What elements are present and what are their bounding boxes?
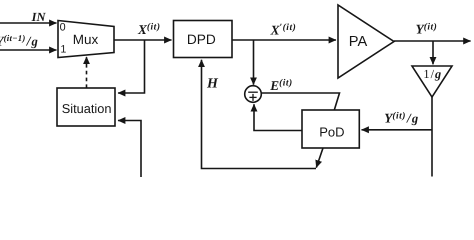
svg-text:PoD: PoD	[319, 125, 344, 140]
svg-text:X(it): X(it)	[137, 22, 160, 37]
block Situation	[57, 88, 115, 126]
wire branch Y(it) down to 1/g	[432, 41, 434, 64]
wire PA output Y(it)	[394, 40, 471, 42]
svg-text:Y(it) / g: Y(it) / g	[384, 111, 418, 126]
wire X'(it) branch down to summer	[253, 40, 255, 85]
svg-text:Y(it−1) / g: Y(it−1) / g	[0, 33, 38, 48]
wire bottom feedback H bus	[202, 60, 317, 169]
svg-text:X′(it): X′(it)	[270, 22, 297, 37]
minus-plus sign inside summer	[248, 92, 258, 101]
attenuator 1/g	[412, 66, 452, 97]
label Y(it)/g	[384, 111, 418, 126]
mux MUX	[58, 21, 114, 58]
label 1/g	[423, 67, 441, 81]
label 1 mux input	[60, 44, 66, 56]
wire E(it) from summer to PoD top	[261, 93, 339, 110]
summer junction circle	[245, 86, 262, 103]
wire dashed Situation control to Mux	[86, 57, 88, 88]
svg-text:E(it): E(it)	[269, 78, 292, 93]
wire lower feedback into Situation	[118, 121, 141, 178]
wire IN input	[0, 22, 57, 24]
block PoD	[302, 110, 359, 148]
label PA	[349, 34, 368, 50]
wire Mux output X(it)	[114, 39, 172, 41]
label Y(it) top right	[416, 22, 438, 37]
label H	[206, 77, 219, 92]
svg-text:Situation: Situation	[62, 101, 112, 116]
wire PoD bottom output diagonal	[316, 148, 323, 168]
svg-text:Mux: Mux	[73, 32, 99, 47]
svg-text:Y(it): Y(it)	[416, 22, 438, 37]
wire 1/g output down	[431, 97, 433, 177]
svg-text:PA: PA	[349, 34, 368, 50]
label X'(it)	[270, 22, 297, 37]
label IN	[31, 10, 47, 24]
label Y(it-1)/g	[0, 33, 38, 48]
amplifier PA	[338, 5, 394, 78]
svg-text:DPD: DPD	[187, 32, 216, 47]
label E(it)	[269, 78, 292, 93]
wire Y(it)/g feedback to PoD	[362, 129, 433, 131]
svg-text:0: 0	[60, 22, 66, 34]
wire PoD left output up to summer	[254, 104, 302, 130]
wire Y(it-1)/g input	[0, 49, 57, 51]
label X(it)	[137, 22, 160, 37]
label Mux	[73, 32, 99, 47]
wire DPD output X'(it)	[232, 39, 336, 41]
svg-text:H: H	[206, 77, 219, 92]
label 0 mux input	[60, 22, 66, 34]
label DPD	[187, 32, 216, 47]
block DPD	[174, 21, 233, 58]
svg-text:1: 1	[60, 44, 66, 56]
label Situation	[62, 101, 112, 116]
svg-text:1 / g: 1 / g	[423, 67, 441, 81]
wire X(it) branch to Situation	[118, 40, 145, 93]
svg-text:IN: IN	[31, 10, 47, 24]
label PoD	[319, 125, 344, 140]
